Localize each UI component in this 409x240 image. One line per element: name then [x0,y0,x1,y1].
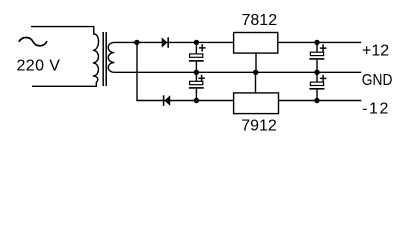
svg-text:7912: 7912 [241,117,277,134]
svg-text:GND: GND [362,72,393,89]
svg-text:7812: 7812 [242,12,278,29]
svg-text:220 V: 220 V [17,57,61,74]
svg-text:-12: -12 [362,101,388,118]
svg-text:+12: +12 [362,43,389,60]
